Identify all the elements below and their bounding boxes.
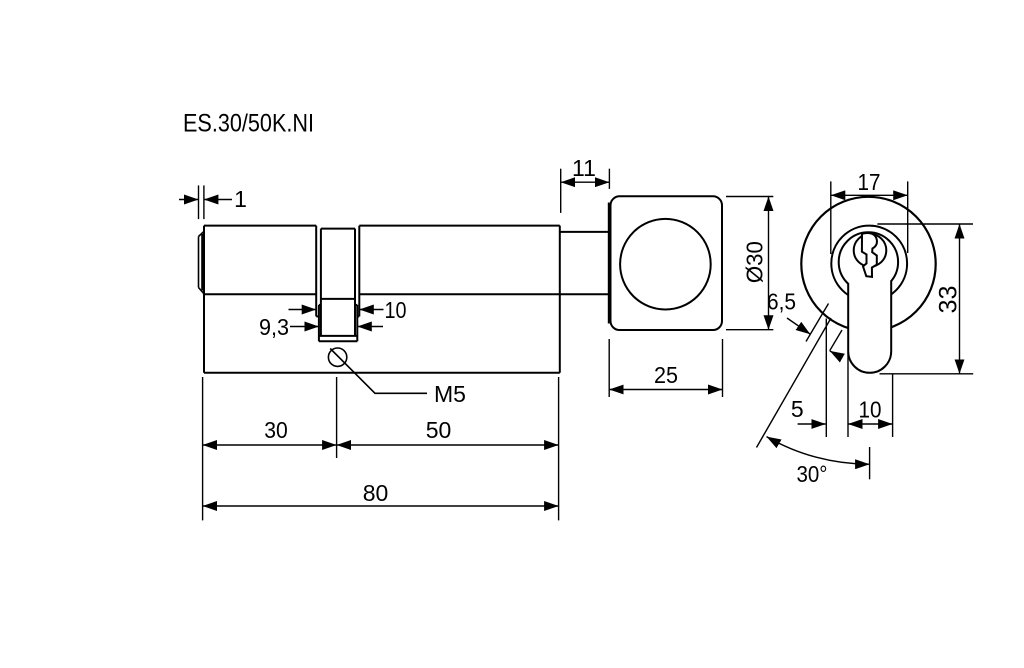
- svg-text:5: 5: [791, 396, 804, 422]
- dimension 10 (cam width): [289, 309, 384, 311]
- rotated profile edge L1: [806, 304, 829, 342]
- dimension 30 / 50: [203, 377, 559, 520]
- svg-text:25: 25: [654, 362, 678, 388]
- dimension 1 (tip): [179, 185, 232, 219]
- svg-text:Ø30: Ø30: [742, 241, 768, 283]
- rotated profile edge L2: [830, 330, 842, 351]
- dimension 25 (knob width): [609, 339, 722, 397]
- keyway slot: [862, 233, 877, 277]
- dimension 11 (neck): [561, 169, 610, 213]
- svg-text:10: 10: [859, 397, 882, 423]
- dimension diameter 30 (knob): [726, 197, 773, 330]
- 30 degree ray: [757, 318, 832, 448]
- svg-text:10: 10: [385, 297, 407, 323]
- barrel circle: [831, 226, 907, 302]
- svg-text:17: 17: [858, 169, 881, 195]
- cam ring: [316, 226, 359, 342]
- svg-text:6,5: 6,5: [767, 289, 796, 315]
- cylinder tip chamfer: [199, 231, 205, 294]
- svg-text:1: 1: [234, 186, 247, 212]
- svg-text:33: 33: [935, 286, 963, 314]
- svg-text:30°: 30°: [797, 461, 828, 487]
- knob front circle: [801, 197, 935, 331]
- neck between body and knob: [560, 231, 609, 233]
- profile extension: [848, 281, 891, 373]
- dimension 9,3 (cam lower width): [290, 326, 383, 328]
- plug circle: [839, 232, 898, 291]
- svg-text:50: 50: [426, 417, 452, 443]
- dimension 17: [831, 181, 908, 254]
- svg-text:ES.30/50K.NI: ES.30/50K.NI: [183, 110, 314, 138]
- svg-text:M5: M5: [434, 381, 466, 407]
- svg-text:11: 11: [572, 155, 596, 181]
- cylinder body side view outline: [204, 226, 609, 373]
- dimension 30 degrees arc: [767, 437, 870, 480]
- dimension 33: [877, 224, 973, 374]
- dimension 80: [203, 505, 559, 507]
- M5 screw hole: [328, 348, 427, 393]
- knob side view: [609, 196, 722, 330]
- dimension 10 (profile width front): [848, 375, 893, 438]
- title label ES.30/50K.NI: [183, 110, 314, 138]
- dimension 5: [798, 319, 848, 438]
- svg-text:9,3: 9,3: [259, 314, 289, 340]
- dimension 6,5 leader arrows: [787, 318, 842, 358]
- key circle: [854, 234, 887, 267]
- svg-text:30: 30: [264, 417, 288, 443]
- svg-text:80: 80: [363, 480, 389, 506]
